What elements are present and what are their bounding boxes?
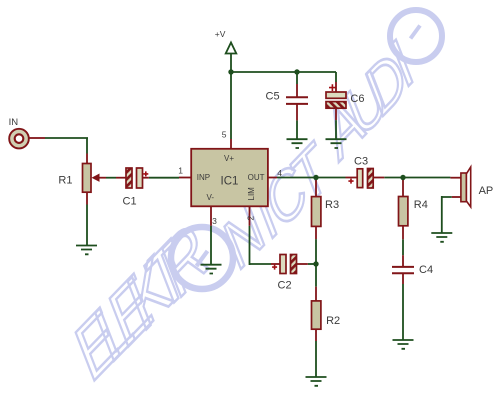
- svg-text:IN: IN: [9, 117, 19, 128]
- svg-text:V-: V-: [207, 193, 215, 202]
- svg-text:2: 2: [246, 216, 256, 221]
- svg-text:R2: R2: [326, 315, 340, 327]
- svg-text:C5: C5: [266, 91, 280, 103]
- svg-text:C1: C1: [123, 196, 137, 208]
- svg-text:C3: C3: [354, 156, 368, 168]
- svg-text:3: 3: [212, 216, 217, 226]
- svg-text:AP: AP: [479, 185, 494, 197]
- svg-text:R1: R1: [58, 175, 72, 187]
- svg-text:INP: INP: [197, 173, 210, 182]
- svg-text:C6: C6: [350, 93, 364, 105]
- svg-text:LIM: LIM: [247, 187, 256, 201]
- svg-text:4: 4: [277, 168, 282, 178]
- svg-text:5: 5: [222, 129, 227, 139]
- svg-text:+V: +V: [215, 29, 226, 39]
- svg-text:1: 1: [178, 166, 183, 176]
- svg-text:OUT: OUT: [248, 173, 265, 182]
- svg-text:IC1: IC1: [221, 176, 239, 188]
- svg-text:C2: C2: [278, 279, 292, 291]
- svg-text:V+: V+: [224, 154, 234, 163]
- svg-text:R3: R3: [325, 199, 339, 211]
- svg-text:R4: R4: [414, 199, 428, 211]
- svg-text:C4: C4: [419, 264, 433, 276]
